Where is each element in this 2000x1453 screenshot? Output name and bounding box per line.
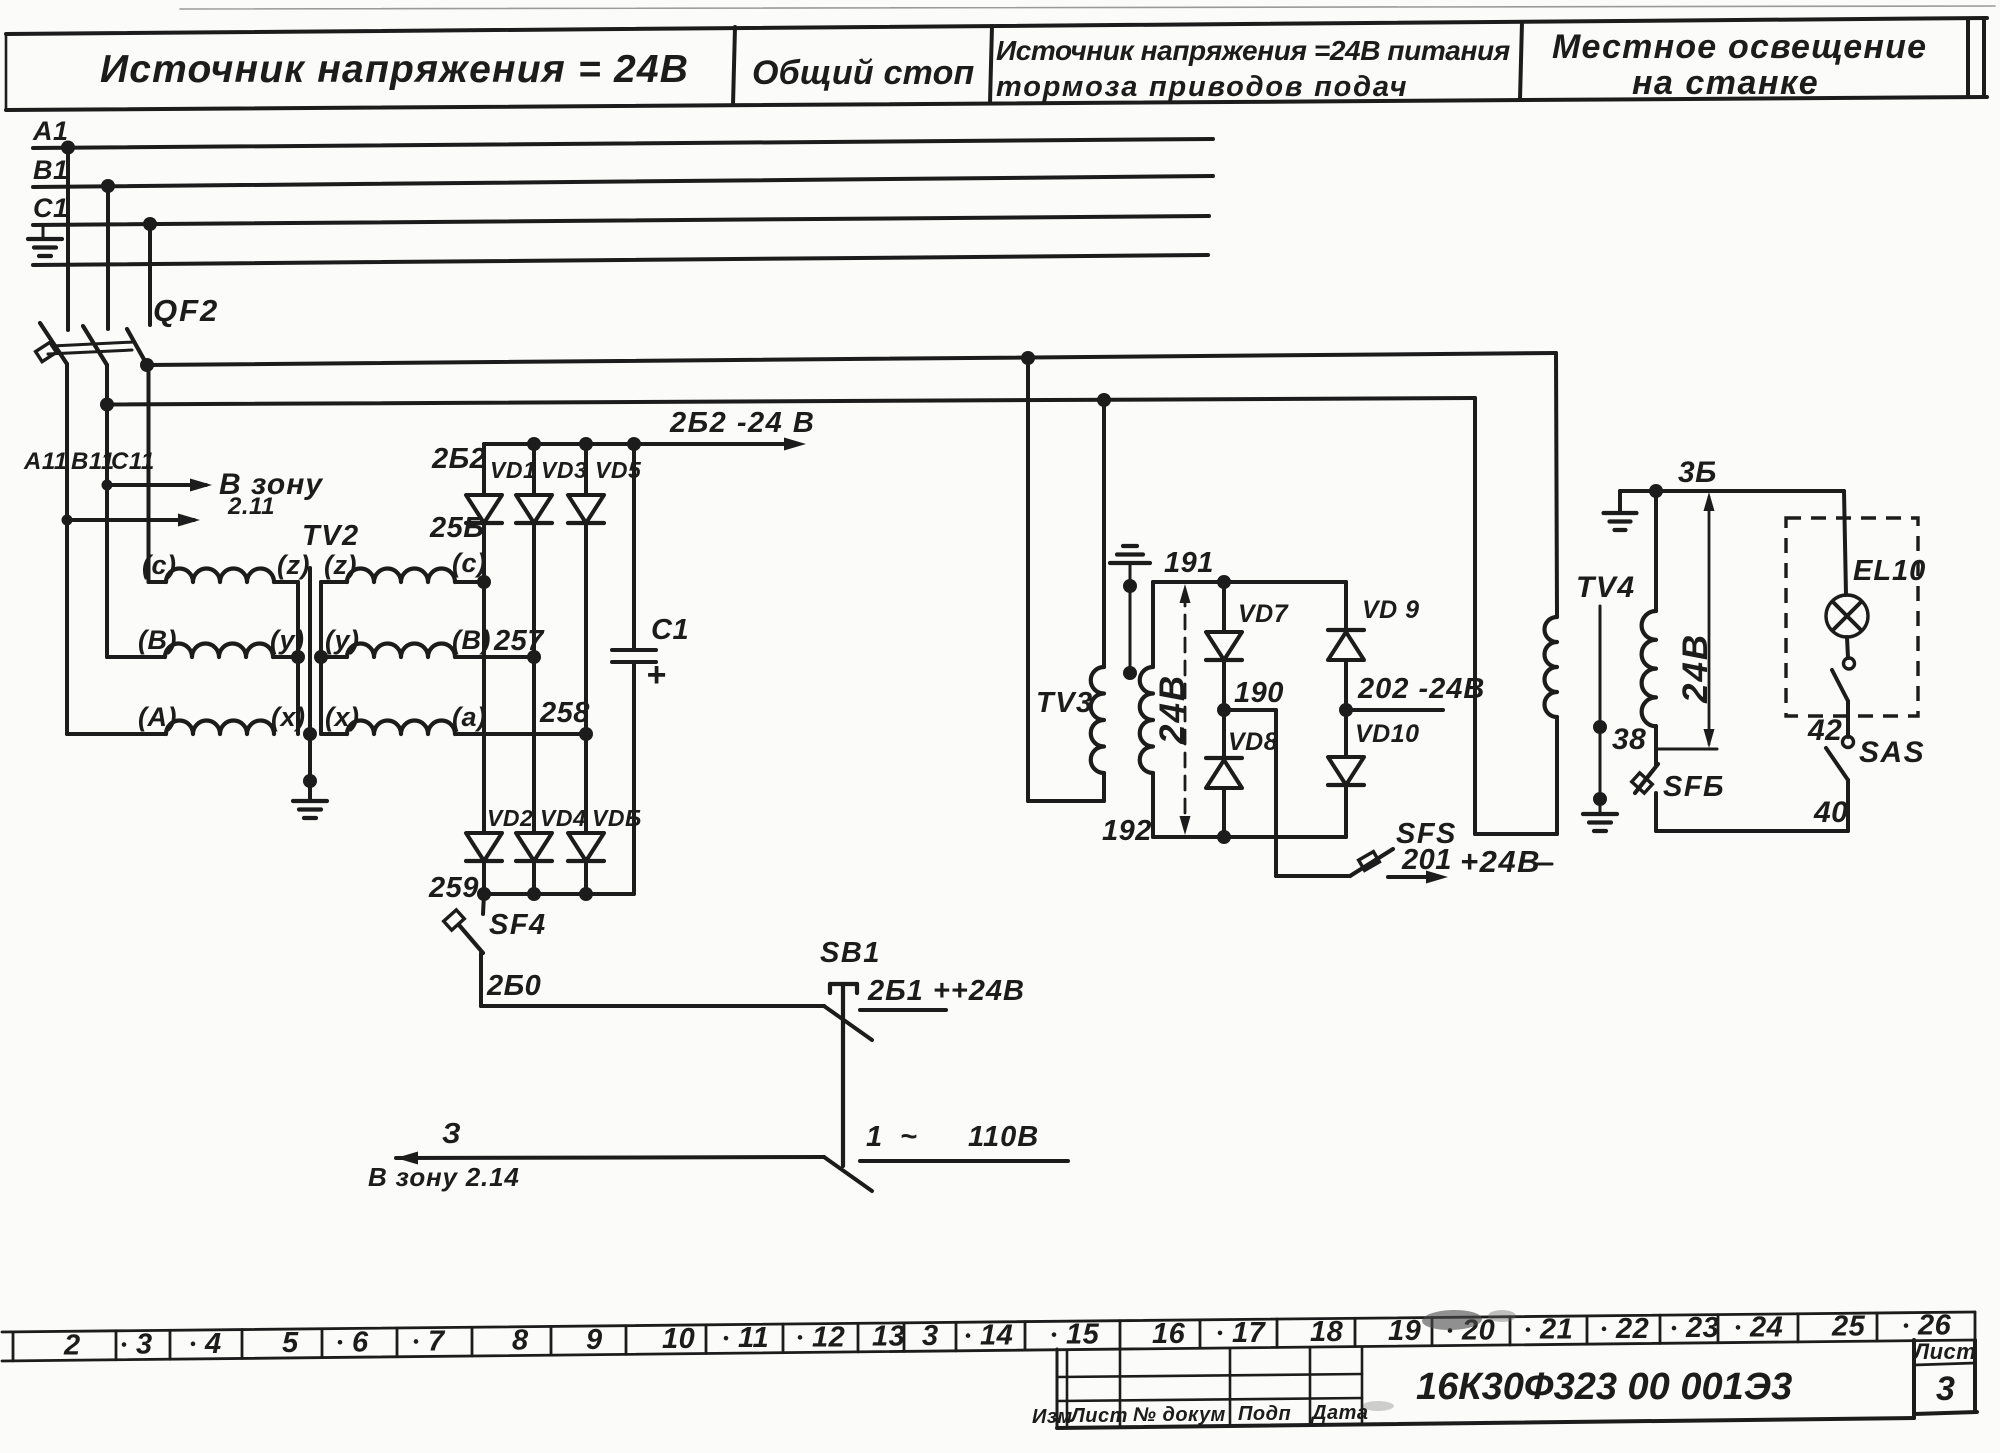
svg-text:190: 190 xyxy=(1234,677,1284,709)
svg-text:258: 258 xyxy=(539,697,590,729)
dimension 24V TV4 text xyxy=(1676,633,1715,704)
node 36 label xyxy=(1678,456,1717,489)
svg-text:(В): (В) xyxy=(138,625,177,655)
bus1 phase C distribution xyxy=(147,353,1556,365)
svg-text:TV2: TV2 xyxy=(302,520,360,552)
breaker QF2 label xyxy=(153,293,219,328)
scan smudge on ruler xyxy=(1422,1309,1516,1331)
svg-text:VD2: VD2 xyxy=(487,805,533,831)
wire TV3 secondary top leg xyxy=(1151,582,1155,667)
wire node 36 xyxy=(1620,489,1844,493)
breaker QF2 linkage bar xyxy=(48,342,134,354)
svg-text:24В: 24В xyxy=(1676,633,1715,704)
switch SA5 lower blade xyxy=(1826,748,1848,780)
node TV2 star bottom xyxy=(303,727,317,741)
svg-text:А11: А11 xyxy=(23,448,68,475)
svg-text:(с): (с) xyxy=(142,550,177,580)
breaker SF4 handle square xyxy=(444,910,465,930)
wire B1 drop to QF2 xyxy=(106,186,110,329)
wire TV4 secondary bottom leg xyxy=(1654,726,1658,766)
node TV4 screen 38 xyxy=(1593,720,1607,734)
label 202 -24В xyxy=(1357,673,1485,705)
node C11 label xyxy=(111,448,155,475)
svg-text:25Б: 25Б xyxy=(429,512,484,544)
node zone arrow 1 junction xyxy=(102,480,113,491)
ruler strip frame xyxy=(2,1312,1975,1361)
node A11 label xyxy=(23,448,68,475)
svg-text:VD8: VD8 xyxy=(1228,728,1278,756)
svg-text:VD7: VD7 xyxy=(1238,600,1289,628)
scan smudge near title xyxy=(1362,1401,1394,1411)
node 257 junction xyxy=(527,650,541,664)
svg-text:2Б0: 2Б0 xyxy=(486,970,541,1002)
wire TV2 secondary star xyxy=(319,582,323,734)
svg-text:Дата: Дата xyxy=(1310,1402,1368,1424)
sheet number 3 xyxy=(1936,1370,1955,1408)
svg-text:2.11: 2.11 xyxy=(227,493,275,520)
node 260 label xyxy=(486,970,541,1002)
svg-text:202 -24В: 202 -24В xyxy=(1357,673,1485,705)
svg-text:16: 16 xyxy=(1152,1318,1186,1350)
label (y) primary xyxy=(270,625,305,655)
node bus top C1 xyxy=(627,437,641,451)
breaker SF5 blade xyxy=(1350,849,1393,876)
svg-text:QF2: QF2 xyxy=(153,293,219,328)
svg-text:В11: В11 xyxy=(71,448,115,475)
diode VD8 xyxy=(1206,710,1242,837)
svg-text:TV4: TV4 xyxy=(1576,571,1636,604)
svg-text:2Б2: 2Б2 xyxy=(431,443,486,475)
svg-text:(а): (а) xyxy=(452,702,487,732)
header cell2 text: Общий стоп xyxy=(752,54,975,92)
wire zone 2.11 arrow lower xyxy=(67,514,200,527)
ground TV3 screen xyxy=(1110,546,1150,563)
node 190 label xyxy=(1234,677,1284,709)
svg-text:22: 22 xyxy=(1615,1313,1649,1345)
ground at C1 rail xyxy=(28,226,62,256)
svg-text:24В: 24В xyxy=(1153,674,1192,745)
wire N rail xyxy=(33,255,1208,265)
node bus1 TV3 tap xyxy=(1021,351,1035,365)
header divider cell1/cell2 xyxy=(733,27,735,105)
faint page top edge xyxy=(180,6,1995,9)
transformer TV2 core xyxy=(308,568,312,734)
ground TV2 star point xyxy=(293,801,327,818)
svg-text:13: 13 xyxy=(872,1321,905,1353)
wire TV3 primary left leg xyxy=(1028,358,1104,801)
transformer TV2 secondary winding z-c xyxy=(321,569,484,583)
wire 201 output arrow xyxy=(1388,871,1448,884)
switch SA5 upper blade xyxy=(1832,670,1848,737)
svg-text:15: 15 xyxy=(1066,1319,1100,1351)
wire 110V right xyxy=(860,1159,1068,1163)
transformer TV4 screen wire xyxy=(1599,606,1602,813)
svg-text:SFБ: SFБ xyxy=(1663,771,1725,803)
svg-text:(х): (х) xyxy=(325,702,360,732)
diode VD9 xyxy=(1328,630,1364,710)
node TV2 secondary star y xyxy=(314,650,328,664)
svg-text:16К30Ф323 00 001Э3: 16К30Ф323 00 001Э3 xyxy=(1416,1366,1792,1408)
label 2Б2 -24В output xyxy=(669,407,815,439)
node 40 label xyxy=(1813,796,1848,829)
header cell4 text line1 xyxy=(1552,28,1927,66)
diode VD4 xyxy=(516,833,552,894)
wire node 191 to VD9 xyxy=(1344,582,1348,630)
dashed enclosure box xyxy=(1786,518,1918,716)
dimension 24V TV4 xyxy=(1704,492,1715,748)
svg-text:VD10: VD10 xyxy=(1355,720,1420,748)
svg-text:VD1: VD1 xyxy=(490,457,536,483)
wire TV3 primary top leg xyxy=(1102,400,1106,667)
sheet box label Лист xyxy=(1912,1339,1976,1364)
svg-text:№ докум: № докум xyxy=(1133,1404,1226,1426)
svg-text:24: 24 xyxy=(1749,1311,1783,1343)
capacitor C1 label xyxy=(651,614,689,646)
bus 259 bottom xyxy=(484,892,634,896)
breaker QF2 blade pole B xyxy=(83,326,107,365)
svg-text:TV3: TV3 xyxy=(1036,687,1094,719)
node 190 junction xyxy=(1217,703,1231,717)
transformer TV2 label xyxy=(302,520,360,552)
svg-text:В1: В1 xyxy=(33,155,69,185)
wire TV4 secondary top leg xyxy=(1654,491,1658,611)
wire node 190 to SF5 xyxy=(1224,710,1350,876)
svg-text:1: 1 xyxy=(866,1121,883,1153)
label 1 ~ 110В xyxy=(866,1121,1039,1153)
label (x) secondary xyxy=(325,702,360,732)
breaker QF2 blade pole A xyxy=(40,323,67,364)
node B11 label xyxy=(71,448,115,475)
svg-text:Лист: Лист xyxy=(1069,1405,1128,1427)
diode VD1 xyxy=(466,444,502,582)
svg-text:SAS: SAS xyxy=(1859,736,1925,769)
svg-text:9: 9 xyxy=(586,1324,603,1356)
svg-text:11: 11 xyxy=(738,1322,769,1354)
svg-text:(х): (х) xyxy=(271,702,306,732)
breaker SF6 blade xyxy=(1635,764,1658,793)
diode VD9 label xyxy=(1362,596,1420,624)
node B1 junction xyxy=(101,179,115,193)
breaker SF5 label xyxy=(1396,818,1457,850)
diode VD3 xyxy=(516,444,552,657)
svg-text:17: 17 xyxy=(1232,1317,1267,1349)
node C1 label xyxy=(33,193,69,223)
transformer TV4 primary winding xyxy=(1545,617,1558,717)
label (y) secondary xyxy=(325,625,360,655)
transformer TV2 primary winding C xyxy=(166,569,274,583)
node 258 label xyxy=(539,697,590,729)
svg-text:4: 4 xyxy=(204,1328,222,1360)
svg-text:Местное освещение: Местное освещение xyxy=(1552,28,1927,66)
diode VD10 label xyxy=(1355,720,1420,748)
node bus top VD3 xyxy=(527,437,541,451)
svg-text:VD 9: VD 9 xyxy=(1362,596,1420,624)
node 201 label xyxy=(1401,844,1452,876)
dimension 24V TV3 xyxy=(1180,584,1191,835)
svg-text:Лист: Лист xyxy=(1912,1339,1976,1364)
label (A) primary xyxy=(138,702,177,732)
node 42 label xyxy=(1807,714,1842,747)
svg-text:Источник напряжения = 24В: Источник напряжения = 24В xyxy=(100,48,689,91)
node TV4 screen lower xyxy=(1593,792,1607,806)
title block row labels xyxy=(1032,1402,1368,1428)
svg-text:42: 42 xyxy=(1807,714,1842,747)
bus 192 xyxy=(1153,835,1346,839)
node bus2 TV3 tap xyxy=(1097,393,1111,407)
transformer TV2 secondary winding x-a xyxy=(321,721,586,735)
wire phase A QF2 to TV2 (A) xyxy=(67,364,166,734)
label В зону xyxy=(219,468,323,501)
transformer TV2 secondary winding y-B xyxy=(321,644,534,658)
diode VD6 xyxy=(568,833,604,894)
diode VD10 xyxy=(1328,710,1364,837)
node 202 junction xyxy=(1339,703,1353,717)
header cell1 text: Источник напряжения = 24В xyxy=(100,48,689,91)
bus -24V top xyxy=(484,438,806,451)
svg-text:12: 12 xyxy=(812,1321,845,1353)
node A1 junction xyxy=(61,141,75,155)
dimension 24V TV4 ref line xyxy=(1656,748,1717,751)
pushbutton SB1 label xyxy=(820,937,881,969)
capacitor C1 xyxy=(612,444,656,894)
node A1 label xyxy=(32,116,69,146)
label В зону 2.14 xyxy=(368,1162,520,1192)
header right double border xyxy=(1968,18,1984,97)
node 192 junction VD8 xyxy=(1217,830,1231,844)
svg-text:VD4: VD4 xyxy=(540,805,586,831)
wire B1 rail xyxy=(33,176,1213,187)
svg-text:А1: А1 xyxy=(32,116,69,146)
pushbutton SB1 upper contact blade xyxy=(824,1006,872,1040)
node 258 junction xyxy=(579,727,593,741)
svg-text:В зону 2.14: В зону 2.14 xyxy=(368,1162,520,1192)
bus2 phase B distribution xyxy=(107,398,1475,405)
svg-text:21: 21 xyxy=(1539,1314,1573,1346)
wire TV3 secondary bottom leg xyxy=(1151,773,1155,837)
svg-text:2: 2 xyxy=(63,1329,81,1361)
wire SF6 to lamp circuit xyxy=(1656,780,1848,831)
label (c) secondary xyxy=(452,548,487,578)
svg-text:Общий стоп: Общий стоп xyxy=(752,54,975,92)
svg-text:8: 8 xyxy=(512,1325,529,1357)
breaker QF2 blade pole C xyxy=(127,329,146,363)
node 259 label xyxy=(428,872,479,904)
svg-text:~: ~ xyxy=(900,1121,917,1153)
svg-text:З: З xyxy=(442,1118,461,1150)
svg-text:191: 191 xyxy=(1164,547,1214,579)
node c phase junction xyxy=(477,575,491,589)
pushbutton SB1 lower contact blade xyxy=(824,1157,872,1191)
svg-text:(z): (z) xyxy=(324,550,357,580)
node TV3 screen bottom xyxy=(1123,666,1137,680)
pushbutton SB1 plunger xyxy=(830,984,857,1166)
svg-text:19: 19 xyxy=(1388,1315,1421,1347)
node bus bottom VD6 xyxy=(579,887,593,901)
node 191 junction VD7 xyxy=(1217,575,1231,589)
wire 261 to +24V xyxy=(860,1008,946,1012)
title block frame xyxy=(1057,1340,1914,1428)
node B1 label xyxy=(33,155,69,185)
svg-text:3: 3 xyxy=(1936,1370,1955,1408)
svg-text:+: + xyxy=(646,656,666,694)
wire node 202 xyxy=(1346,708,1443,712)
node 191 label xyxy=(1164,547,1214,579)
node 262 label xyxy=(431,443,486,475)
breaker SF6 handle square xyxy=(1632,773,1653,793)
svg-text:6: 6 xyxy=(352,1326,369,1358)
diode VD1 label xyxy=(490,457,536,483)
transformer TV4 label xyxy=(1576,571,1636,604)
label +24В xyxy=(1460,844,1552,879)
header band top border xyxy=(6,18,1987,34)
label 2.11 xyxy=(227,493,275,520)
node TV3 screen top xyxy=(1123,579,1137,593)
switch SA5 label xyxy=(1859,736,1925,769)
node 256 label xyxy=(429,512,484,544)
svg-text:201: 201 xyxy=(1401,844,1452,876)
diode VD7 xyxy=(1206,582,1242,710)
dimension 24V TV3 text xyxy=(1153,674,1192,745)
node bus2 tap at B xyxy=(100,398,114,412)
svg-text:14: 14 xyxy=(980,1320,1013,1352)
transformer TV3 screen wire xyxy=(1129,563,1132,673)
svg-text:110В: 110В xyxy=(968,1121,1039,1153)
breaker SF5 handle square xyxy=(1359,852,1380,871)
wire phase B QF2 down xyxy=(107,365,165,657)
node 3 label xyxy=(442,1118,461,1150)
breaker SF6 label xyxy=(1663,771,1725,803)
svg-text:тормоза приводов подач: тормоза приводов подач xyxy=(996,71,1408,103)
svg-text:3: 3 xyxy=(136,1329,153,1361)
wire bus2 to TV4 bottom xyxy=(1475,398,1557,834)
wire TV2 star to ground xyxy=(308,734,312,800)
header cell3 text line1 xyxy=(996,35,1510,66)
svg-text:SB1: SB1 xyxy=(820,937,881,969)
diode VD6 label xyxy=(592,805,642,831)
svg-text:40: 40 xyxy=(1813,796,1848,829)
svg-text:18: 18 xyxy=(1310,1316,1344,1348)
svg-text:25: 25 xyxy=(1831,1311,1866,1343)
svg-text:2Б2 -24 В: 2Б2 -24 В xyxy=(669,407,815,439)
node bus1 tap at C xyxy=(140,358,154,372)
svg-text:38: 38 xyxy=(1612,723,1646,756)
label (C) primary xyxy=(142,550,177,580)
svg-text:EL10: EL10 xyxy=(1853,555,1926,587)
ground TV4 screen xyxy=(1583,814,1617,831)
diode VD8 label xyxy=(1228,728,1278,756)
capacitor C1 polarity + xyxy=(646,656,666,694)
svg-text:SF4: SF4 xyxy=(489,909,547,941)
svg-text:2Б1 ++24В: 2Б1 ++24В xyxy=(867,975,1025,1007)
wire C1 drop to QF2 xyxy=(148,224,152,325)
header divider cell2/cell3 xyxy=(990,26,992,103)
wire phase C QF2 down xyxy=(149,363,167,582)
wire A1 drop to QF2 xyxy=(66,148,70,331)
svg-text:7: 7 xyxy=(428,1325,446,1357)
label (x) primary xyxy=(271,702,306,732)
transformer TV2 primary winding A xyxy=(166,721,274,735)
lamp EL10 label xyxy=(1853,555,1926,587)
diode VD3 label xyxy=(541,457,587,483)
wire bus1 to TV4 top xyxy=(1556,353,1557,617)
label (B) secondary xyxy=(452,625,491,655)
transformer TV3 label xyxy=(1036,687,1094,719)
node zone arrow 2 junction xyxy=(62,515,73,526)
diode VD2 xyxy=(466,833,502,894)
node bus top VD5 xyxy=(579,437,593,451)
svg-text:5: 5 xyxy=(282,1327,299,1359)
ground node 36 xyxy=(1604,491,1637,530)
node 259 corner xyxy=(477,887,491,901)
wire A1 rail xyxy=(33,139,1213,148)
svg-text:Изм: Изм xyxy=(1032,1406,1073,1428)
node on TV2 ground wire xyxy=(303,774,317,788)
wire VD3 to VD4 xyxy=(532,657,536,833)
wire VD5 to VD6 xyxy=(584,734,588,833)
breaker QF2 handle square xyxy=(36,342,57,361)
header band left edge xyxy=(5,34,8,110)
svg-text:259: 259 xyxy=(428,872,479,904)
diode VD5 xyxy=(568,444,604,734)
breaker SF4 blade xyxy=(459,894,484,953)
diode VD4 label xyxy=(540,805,586,831)
svg-text:26: 26 xyxy=(1917,1310,1952,1342)
label (z) primary xyxy=(277,550,310,580)
transformer TV3 primary winding xyxy=(1091,667,1104,773)
svg-text:(у): (у) xyxy=(325,625,360,655)
header divider cell3/cell4 xyxy=(1520,22,1522,99)
header band bottom border xyxy=(6,97,1987,110)
ruler zone numbers xyxy=(63,1310,1952,1362)
node TV2 primary star y xyxy=(291,650,305,664)
wire lamp to SA5 xyxy=(1847,637,1848,658)
wire TV2 primary star xyxy=(273,582,298,734)
svg-text:3Б: 3Б xyxy=(1678,456,1717,489)
node 192 label xyxy=(1102,815,1152,847)
wire C1 rail xyxy=(33,216,1209,225)
wire 260 xyxy=(481,953,824,1006)
svg-text:192: 192 xyxy=(1102,815,1152,847)
node 38 label xyxy=(1612,723,1646,756)
label (a) secondary xyxy=(452,702,487,732)
svg-text:+24В: +24В xyxy=(1460,844,1541,879)
wire node36 to lamp xyxy=(1844,491,1846,595)
wire node 191 xyxy=(1153,580,1346,584)
svg-text:Подп: Подп xyxy=(1238,1403,1291,1425)
header cell4 text line2 xyxy=(1632,64,1819,102)
node C1 junction xyxy=(143,217,157,231)
svg-text:С11: С11 xyxy=(111,448,155,475)
label (z) secondary xyxy=(324,550,357,580)
breaker SF4 label xyxy=(489,909,547,941)
transformer TV4 secondary winding xyxy=(1642,611,1656,726)
switch SA5 contact 42 xyxy=(1843,737,1854,748)
diode VD5 label xyxy=(595,457,642,483)
transformer TV2 primary winding B xyxy=(165,644,273,658)
svg-text:Источник напряжения =24В пит: Источник напряжения =24В питания xyxy=(996,35,1510,66)
node 257 label xyxy=(493,625,545,657)
label 2Б1 ++24В xyxy=(867,975,1025,1007)
switch SA5 upper contact xyxy=(1844,658,1855,669)
svg-text:VD3: VD3 xyxy=(541,457,587,483)
diode VD7 label xyxy=(1238,600,1289,628)
svg-text:(А): (А) xyxy=(138,702,177,732)
sheet box frame xyxy=(1914,1340,1977,1414)
wire 3 to zone 2.14 xyxy=(396,1152,824,1165)
diode VD2 label xyxy=(487,805,533,831)
svg-text:(z): (z) xyxy=(277,550,310,580)
node 36 junction xyxy=(1649,484,1663,498)
